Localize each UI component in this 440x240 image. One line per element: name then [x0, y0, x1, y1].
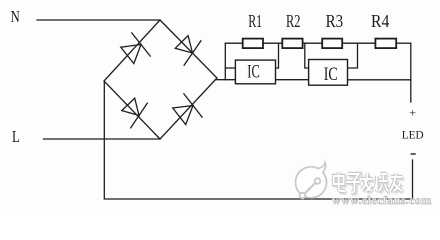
svg-text:R4: R4	[371, 11, 390, 31]
svg-text:IC: IC	[324, 64, 338, 85]
svg-text:R1: R1	[248, 11, 262, 31]
svg-text:www.elecfans.com: www.elecfans.com	[332, 193, 432, 207]
svg-text:+: +	[409, 106, 416, 120]
svg-text:L: L	[12, 127, 20, 146]
svg-text:R2: R2	[286, 11, 301, 31]
svg-text:LED: LED	[402, 128, 424, 142]
svg-text:IC: IC	[247, 61, 259, 82]
svg-text:N: N	[11, 7, 20, 26]
svg-text:R3: R3	[326, 11, 344, 31]
